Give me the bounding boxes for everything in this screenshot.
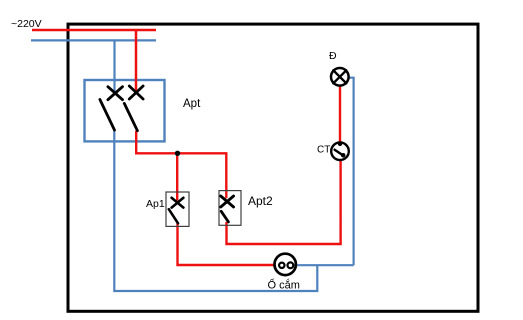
svg-text:Đ: Đ [329,50,337,62]
svg-text:~220V: ~220V [11,18,42,30]
svg-text:CT: CT [317,144,330,155]
svg-text:Apt: Apt [183,98,201,110]
svg-text:Apt2: Apt2 [248,194,273,208]
svg-text:Ap1: Ap1 [146,198,165,210]
svg-text:Ổ cắm: Ổ cắm [268,279,300,292]
